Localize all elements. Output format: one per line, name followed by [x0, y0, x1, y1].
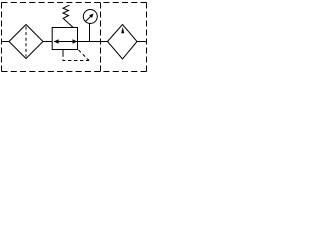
gauge stem [89, 24, 91, 42]
pressure regulator R (box) [52, 28, 77, 50]
spring (regulator setting) [63, 5, 73, 27]
dashed divider (lubricator unit boundary) [100, 3, 102, 72]
relief diagonal (dashed) [79, 50, 90, 61]
regulator relief path (dashed) [63, 54, 89, 61]
wire filter to regulator [43, 41, 52, 43]
lubricator L (diamond) [108, 25, 138, 60]
filter F (diamond) [9, 25, 43, 59]
regulator flow arrow [54, 39, 78, 43]
lubricator oil drop [121, 27, 124, 33]
wire regulator to lubricator [78, 41, 108, 43]
wire outlet [137, 41, 147, 43]
dashed enclosure left edge [1, 3, 3, 72]
pressure gauge G (circle with pointer) [83, 10, 97, 24]
dashed enclosure right edge [146, 3, 148, 72]
dashed enclosure top edge [2, 2, 147, 4]
filter condensate dashed line [25, 27, 27, 57]
regulator vent line (solid stub) [62, 50, 64, 54]
dashed enclosure bottom edge [2, 71, 147, 73]
wire inlet [2, 41, 10, 43]
